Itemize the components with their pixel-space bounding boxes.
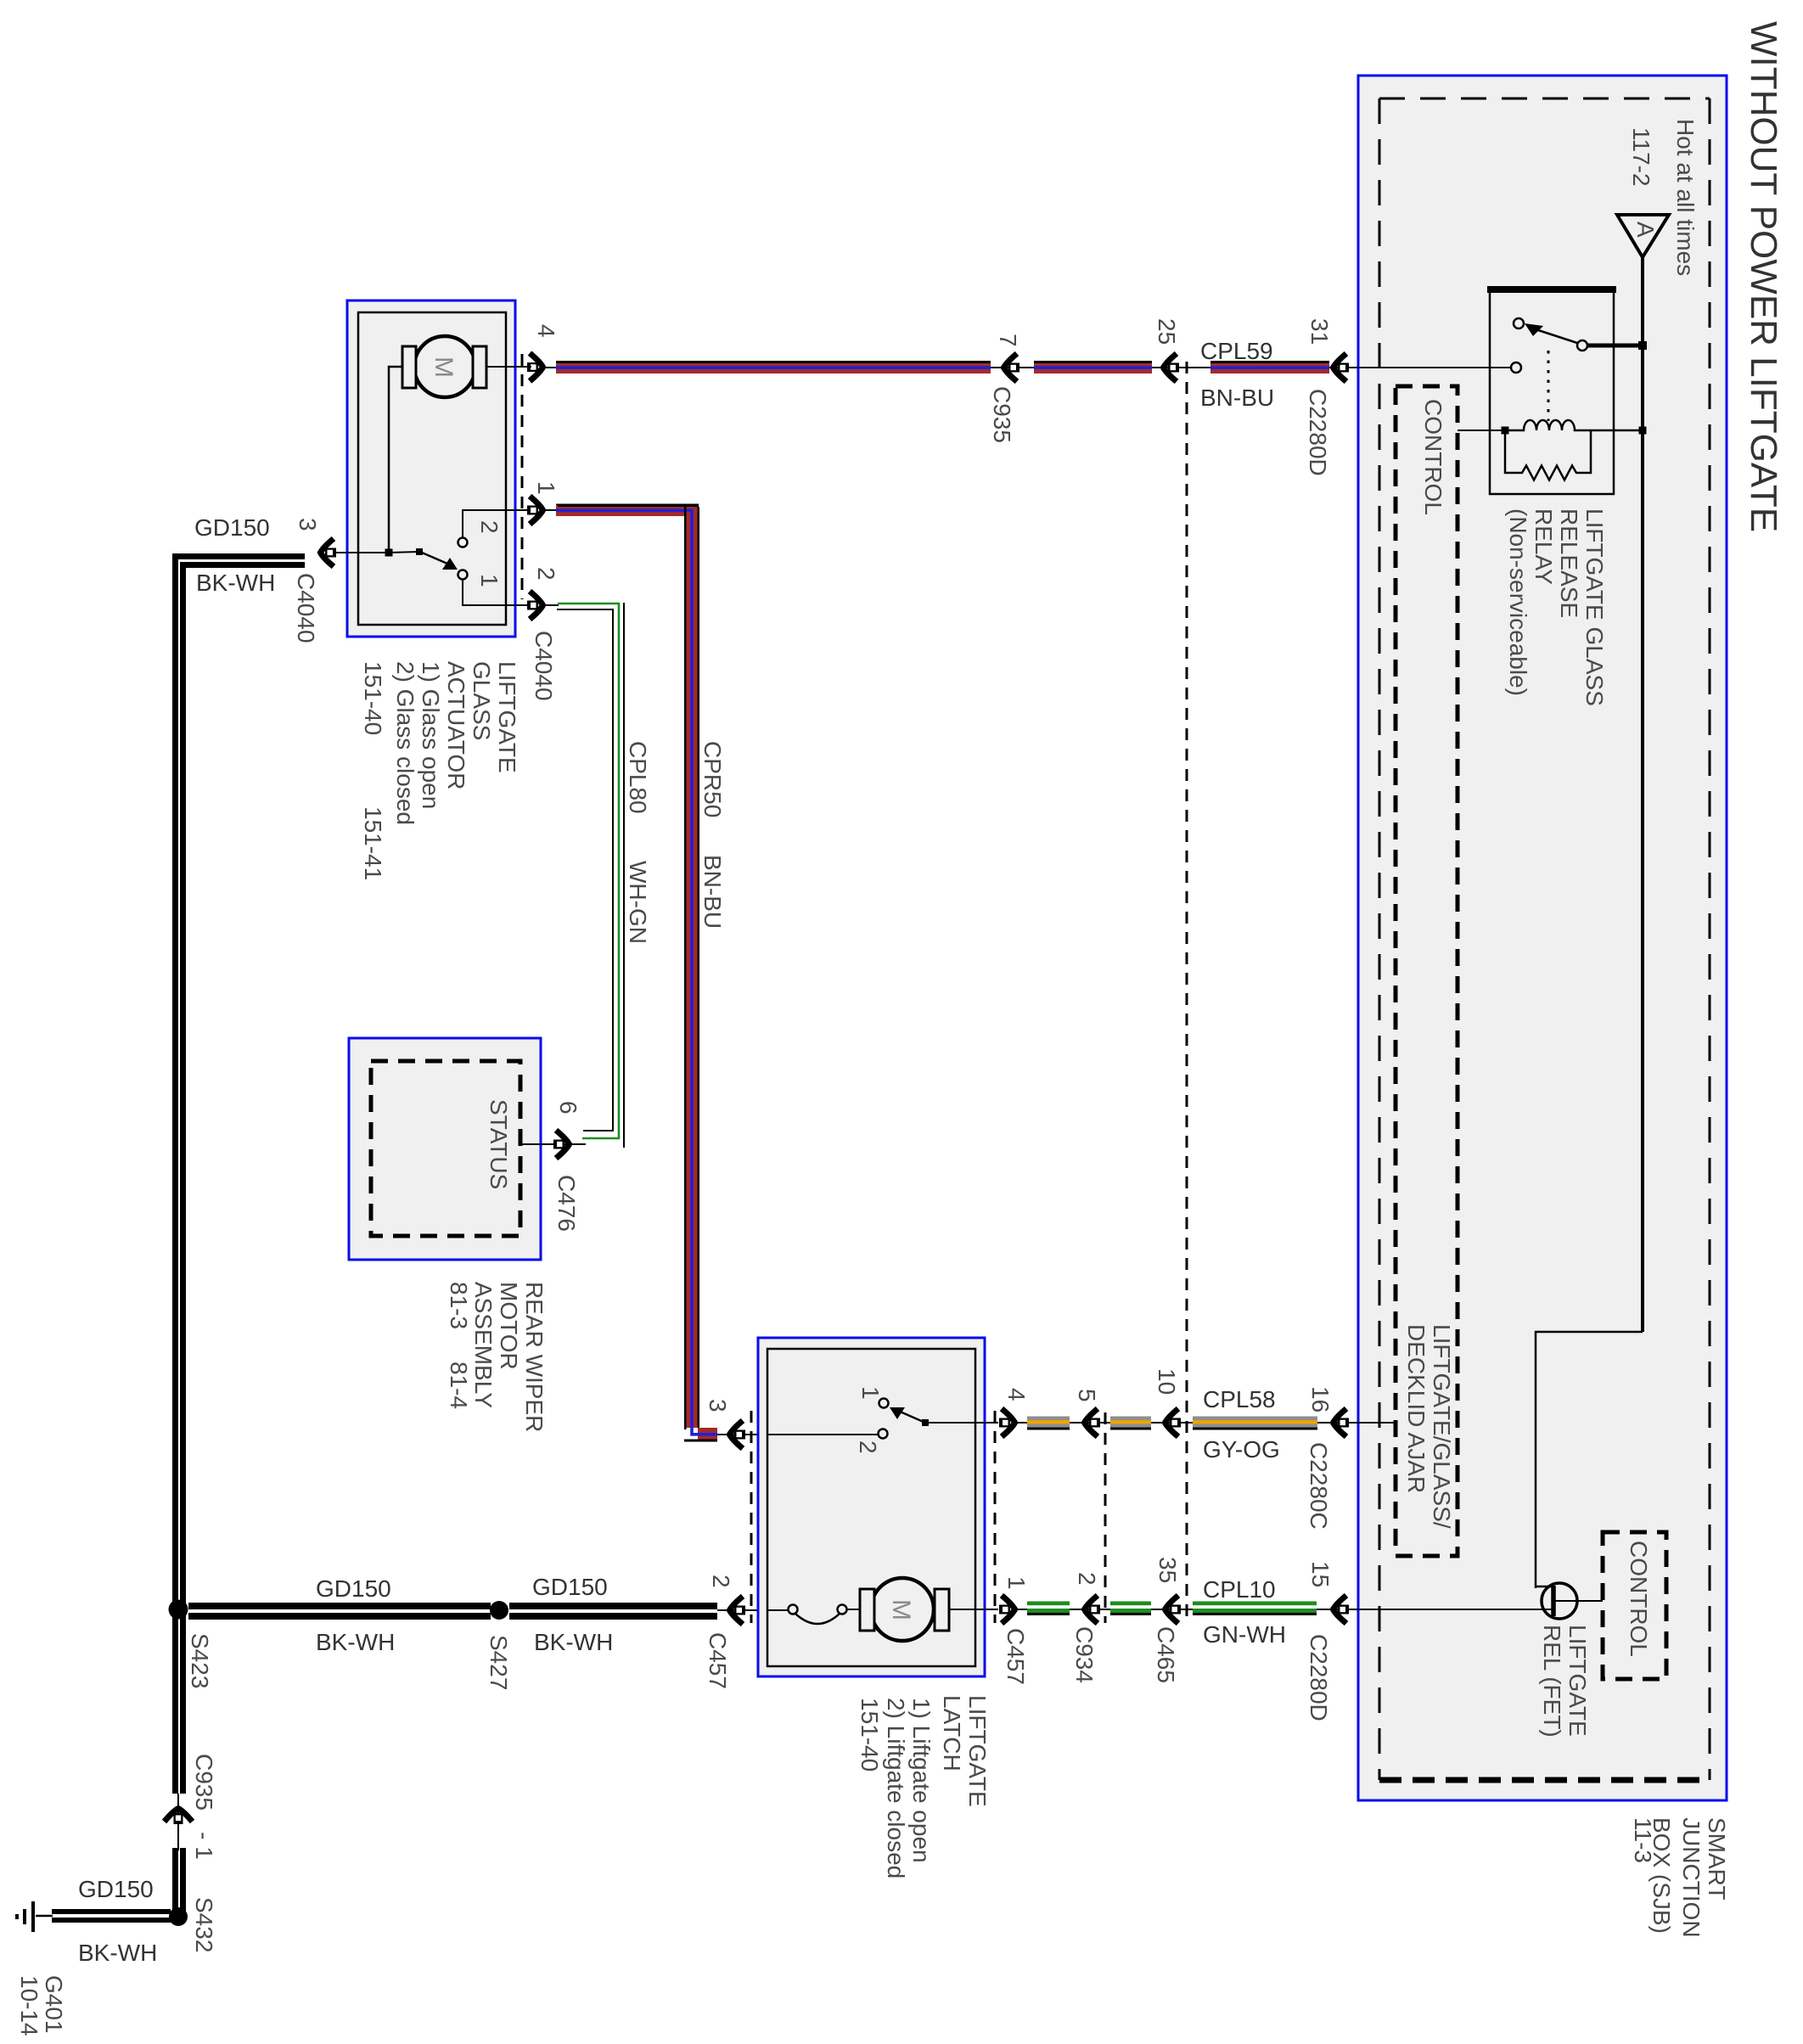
CONTROL dashed box (FET) [1603, 1532, 1666, 1679]
svg-text:MOTOR: MOTOR [496, 1282, 522, 1370]
svg-text:S423: S423 [187, 1633, 213, 1688]
actuator motor wire right [486, 366, 531, 368]
svg-text:C4040: C4040 [293, 573, 319, 643]
svg-text:GD150: GD150 [532, 1574, 608, 1600]
junction dot relay NO/power [1638, 341, 1647, 350]
wire contact2 to pin1 [463, 510, 531, 537]
svg-text:RELEASE: RELEASE [1556, 508, 1582, 618]
svg-text:BK-WH: BK-WH [78, 1940, 157, 1966]
svg-text:4: 4 [1003, 1388, 1030, 1401]
wire latch pin3 to contact2 [767, 1434, 878, 1435]
wire GD150 C935 to S432 strand1 [172, 1848, 178, 1912]
wire segment CPL58 GY-OG [1193, 1417, 1317, 1430]
svg-text:GD150: GD150 [194, 514, 270, 541]
actuator inner box [358, 312, 506, 625]
svg-text:S427: S427 [486, 1635, 512, 1690]
relay coil [1505, 420, 1643, 430]
actuator contact 2 [458, 538, 468, 547]
SJB inner dashed border left [1379, 98, 1381, 1780]
connector arrow C465 pin 35 [1165, 1596, 1182, 1624]
svg-text:3: 3 [705, 1399, 731, 1412]
svg-text:LATCH: LATCH [939, 1695, 965, 1772]
wire coil to CONTROL [1458, 430, 1505, 431]
wire segment GY-OG 2 [1110, 1417, 1151, 1430]
connector arrow C2280D pin 31 [1334, 354, 1350, 382]
svg-text:C2280C: C2280C [1306, 1442, 1332, 1530]
wire motor to pin1 [949, 1609, 998, 1610]
svg-text:1: 1 [533, 481, 559, 495]
connector arrow actuator pin 4 [527, 353, 543, 381]
svg-text:GN-WH: GN-WH [1203, 1621, 1286, 1648]
connector C465 dashed line [1186, 362, 1188, 1623]
relay blade to power junction (thick) [1587, 344, 1643, 348]
svg-text:Hot at all times: Hot at all times [1672, 119, 1699, 276]
svg-text:- 1: - 1 [191, 1832, 217, 1860]
wire contact1 to pin2 [463, 580, 528, 605]
svg-text:ASSEMBLY: ASSEMBLY [470, 1282, 497, 1408]
relay box thick top edge [1487, 286, 1616, 293]
connector arrow actuator pin 1 [527, 497, 543, 525]
svg-text:LIFTGATE: LIFTGATE [964, 1695, 991, 1807]
svg-text:11-3: 11-3 [1630, 1817, 1656, 1863]
wire blade to pin4 [925, 1422, 998, 1423]
svg-text:15: 15 [1307, 1561, 1334, 1587]
wire CPL80 inner black strand [557, 609, 613, 1131]
svg-text:SMART: SMART [1704, 1817, 1730, 1901]
connector arrow C934 pin 5 [1085, 1409, 1101, 1437]
svg-text:35: 35 [1154, 1557, 1181, 1583]
svg-text:2: 2 [855, 1440, 881, 1454]
connector C457 dashed left [750, 1411, 753, 1623]
svg-text:81-4: 81-4 [446, 1362, 472, 1409]
wire segment BN-BU C935 to C465 [1034, 361, 1152, 373]
wire GD150 BK-WH outer strand [176, 557, 306, 1794]
svg-text:C2280D: C2280D [1305, 389, 1331, 476]
wire CPL80 WH-GN green strand [558, 604, 619, 1138]
svg-text:C4040: C4040 [531, 631, 557, 701]
wire status pin6 [520, 1143, 586, 1145]
svg-text:C457: C457 [1003, 1628, 1029, 1685]
svg-text:151-40: 151-40 [857, 1698, 883, 1772]
svg-text:CPL59: CPL59 [1200, 338, 1273, 364]
svg-text:1: 1 [857, 1386, 884, 1400]
SJB inner dashed border top [1379, 98, 1710, 100]
svg-text:C935: C935 [989, 386, 1015, 443]
svg-text:C935: C935 [191, 1754, 217, 1811]
svg-text:BK-WH: BK-WH [534, 1629, 613, 1655]
svg-text:CPR50: CPR50 [699, 741, 726, 817]
latch jumper arc [795, 1614, 840, 1624]
liftgate glass actuator box [347, 300, 515, 637]
actuator switch common junction [385, 549, 393, 557]
svg-text:81-3: 81-3 [446, 1282, 472, 1329]
svg-text:ACTUATOR: ACTUATOR [443, 661, 469, 789]
svg-text:117-2: 117-2 [1628, 127, 1654, 187]
wire junction to pin3 [331, 552, 389, 553]
svg-text:GD150: GD150 [78, 1876, 154, 1902]
svg-text:10-14: 10-14 [16, 1975, 42, 2036]
svg-text:(Non-serviceable): (Non-serviceable) [1505, 508, 1531, 696]
SJB inner dashed border right [1709, 98, 1711, 1780]
SJB inner dashed border bottom (heavy) [1379, 1777, 1710, 1783]
latch contact 1 [879, 1399, 889, 1408]
wire jumper to motor [846, 1609, 860, 1610]
wire segment BN-BU actuator to C935 [556, 361, 991, 373]
svg-text:REAR WIPER: REAR WIPER [521, 1282, 548, 1432]
svg-text:S432: S432 [191, 1897, 217, 1952]
svg-text:A: A [1632, 222, 1659, 238]
latch jumper contact B [838, 1605, 847, 1614]
SJB smart junction box outline [1358, 76, 1727, 1800]
junction dot coil/power [1639, 427, 1647, 435]
transistor LIFTGATE REL FET [1536, 1583, 1603, 1619]
actuator switch blade [422, 553, 458, 570]
connector arrow C2280D pin 15 [1334, 1596, 1350, 1624]
svg-text:2: 2 [708, 1575, 734, 1588]
wire pin1 stub [543, 509, 560, 511]
connector arrow latch pin 4 [999, 1409, 1015, 1437]
wire to latch pin2 [717, 1609, 767, 1611]
svg-text:7: 7 [995, 334, 1021, 347]
svg-text:151-40: 151-40 [360, 661, 386, 735]
svg-text:3: 3 [295, 518, 321, 531]
connector arrow latch pin 1 [999, 1596, 1015, 1624]
relay actuation dotted line [1547, 351, 1550, 421]
connector C934 dashed [1104, 1412, 1107, 1623]
svg-text:C476: C476 [553, 1175, 580, 1232]
wire GD150 S423-S427 [188, 1603, 491, 1620]
wire CPL10 run [1018, 1609, 1553, 1610]
svg-text:1: 1 [1003, 1576, 1030, 1590]
svg-text:BK-WH: BK-WH [196, 570, 275, 596]
svg-text:GLASS: GLASS [469, 661, 495, 740]
wire GD150 S427-latch [509, 1603, 717, 1620]
svg-text:2) Liftgate closed: 2) Liftgate closed [883, 1698, 909, 1878]
svg-text:6: 6 [555, 1101, 581, 1115]
wire segment GY-OG 1 [1027, 1417, 1070, 1430]
latch contact 2 [879, 1429, 888, 1439]
svg-text:BN-BU: BN-BU [699, 855, 726, 929]
connector arrow latch pin 2 [730, 1597, 746, 1625]
svg-text:31: 31 [1306, 318, 1333, 345]
motor M2 [860, 1578, 949, 1641]
wire at C935 gap [177, 1794, 179, 1850]
wire CPL80 outer black strand [623, 603, 625, 1148]
wire CPL59 run [543, 367, 1358, 368]
power wire jog to FET [1536, 1332, 1643, 1588]
wire GD150 to ground [52, 1909, 171, 1923]
latch inner box [767, 1349, 975, 1666]
connector arrow C935 -1 [165, 1809, 193, 1825]
wire segment CPL10 GN-WH [1193, 1602, 1317, 1616]
wire into ground [36, 1915, 53, 1918]
relay contact NC [1514, 318, 1524, 328]
svg-text:BN-BU: BN-BU [1200, 385, 1274, 411]
relay U1 box [1490, 289, 1614, 494]
connector arrow status pin 6 [553, 1131, 570, 1159]
svg-text:1) Glass open: 1) Glass open [418, 661, 444, 809]
junction dot coil left [1502, 427, 1509, 435]
latch blade elbow [922, 1419, 929, 1426]
svg-text:C465: C465 [1153, 1626, 1179, 1683]
latch jumper contact A [789, 1605, 798, 1614]
wire CPL58 run [1018, 1422, 1395, 1423]
splice S423 [169, 1600, 188, 1620]
fuse A symbol [1617, 215, 1669, 257]
latch switch blade [890, 1407, 925, 1423]
svg-text:CONTROL: CONTROL [1626, 1541, 1652, 1657]
splice S427 [490, 1601, 508, 1620]
relay contact NO [1577, 340, 1587, 351]
svg-text:WITHOUT POWER LIFTGATE: WITHOUT POWER LIFTGATE [1743, 21, 1784, 532]
svg-text:LIFTGATE GLASS: LIFTGATE GLASS [1581, 508, 1608, 706]
wire latch pin2 to jumper [767, 1609, 793, 1611]
svg-text:2) Glass closed: 2) Glass closed [392, 661, 418, 825]
connector arrow C934 pin 2 [1085, 1596, 1101, 1624]
wire GD150 BK-WH inner strand [183, 565, 306, 1794]
svg-text:M: M [887, 1599, 915, 1620]
wire segment CPL59 BN-BU [1210, 361, 1329, 373]
connector arrow C465 pin 25 [1164, 354, 1180, 382]
relay switch blade [1525, 323, 1577, 343]
svg-text:1: 1 [476, 574, 503, 587]
svg-text:LIFTGATE: LIFTGATE [1564, 1625, 1591, 1737]
connector arrow actuator pin 3 [321, 539, 337, 567]
svg-text:2: 2 [533, 567, 559, 581]
status dashed box [371, 1061, 520, 1236]
svg-text:LIFTGATE: LIFTGATE [494, 661, 520, 773]
CONTROL-AJAR dashed box [1396, 386, 1458, 1556]
connector arrow actuator pin 2 [527, 592, 543, 620]
wire CPR50 BN-BU band [556, 504, 717, 1442]
svg-text:CPL58: CPL58 [1203, 1386, 1276, 1412]
wire GD150 C935 to S432 strand2 [180, 1848, 186, 1912]
svg-text:G401: G401 [41, 1975, 67, 2034]
svg-text:C934: C934 [1071, 1626, 1098, 1683]
svg-text:CPL80: CPL80 [625, 741, 651, 814]
svg-text:151-41: 151-41 [360, 806, 386, 880]
svg-text:16: 16 [1307, 1386, 1334, 1412]
wire segment GN-WH 2 [1110, 1602, 1151, 1616]
connector arrow C2280C pin 16 [1334, 1409, 1350, 1437]
wire CPR50 to latch pin3 [717, 1434, 767, 1435]
svg-text:GD150: GD150 [316, 1575, 391, 1602]
power wire from fuse down [1641, 257, 1644, 1332]
svg-text:RELAY: RELAY [1531, 508, 1557, 585]
svg-text:M: M [430, 357, 458, 378]
motor M1 [402, 336, 486, 397]
splice S432 [169, 1907, 188, 1926]
svg-text:CONTROL: CONTROL [1420, 399, 1446, 515]
wire pin2 stub [543, 604, 559, 606]
ground G401 symbol [17, 1901, 33, 1932]
svg-text:BK-WH: BK-WH [316, 1629, 395, 1655]
actuator motor wire left [389, 367, 402, 553]
connector arrow latch pin 3 [730, 1421, 746, 1449]
connector arrow C935 pin 7 [1004, 354, 1020, 382]
connector arrow C465 pin 10 [1165, 1409, 1182, 1437]
svg-text:REL (FET): REL (FET) [1539, 1625, 1565, 1738]
svg-text:2: 2 [476, 520, 503, 534]
svg-text:JUNCTION: JUNCTION [1678, 1817, 1705, 1938]
svg-text:CPL10: CPL10 [1203, 1576, 1276, 1603]
svg-text:STATUS: STATUS [486, 1099, 512, 1189]
connector C4040 dashed [521, 354, 524, 599]
relay suppression resistor [1505, 430, 1591, 480]
svg-text:5: 5 [1074, 1389, 1100, 1402]
svg-text:LIFTGATE/GLASS/: LIFTGATE/GLASS/ [1429, 1324, 1455, 1529]
svg-text:C457: C457 [705, 1632, 731, 1689]
rear wiper motor status box [349, 1038, 541, 1260]
liftgate latch box [758, 1338, 985, 1676]
svg-text:25: 25 [1154, 318, 1180, 345]
wire junction to blade pivot [389, 552, 419, 553]
svg-text:4: 4 [533, 324, 559, 338]
wire segment GN-WH 1 [1027, 1602, 1070, 1616]
svg-text:1) Liftgate open: 1) Liftgate open [908, 1698, 935, 1863]
svg-text:C2280D: C2280D [1306, 1634, 1332, 1721]
relay contact common [1511, 362, 1521, 373]
svg-text:10: 10 [1154, 1368, 1180, 1395]
svg-text:2: 2 [1074, 1572, 1100, 1586]
wire CPL59 into relay common [1358, 367, 1511, 368]
actuator blade pivot [416, 548, 423, 555]
svg-text:DECKLID AJAR: DECKLID AJAR [1403, 1324, 1429, 1493]
actuator contact 1 [458, 570, 468, 580]
svg-text:WH-GN: WH-GN [625, 861, 651, 944]
connector C457 dashed right [994, 1411, 997, 1623]
svg-text:GY-OG: GY-OG [1203, 1436, 1280, 1463]
